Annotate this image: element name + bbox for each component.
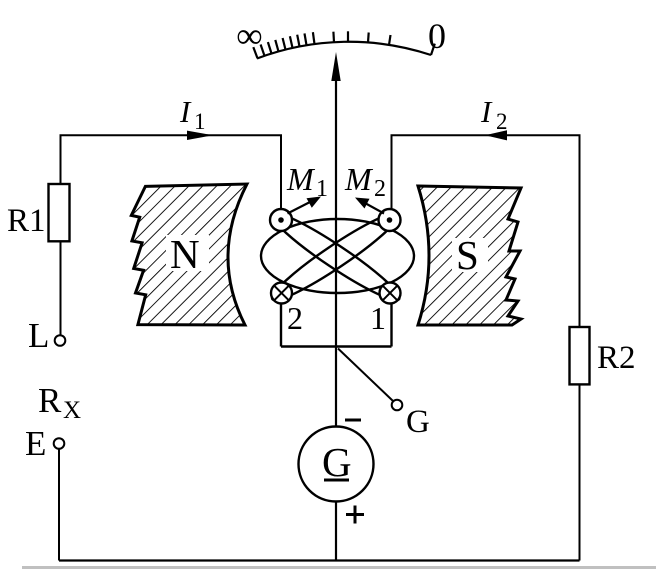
svg-text:G: G [322, 439, 352, 485]
svg-text:I: I [179, 94, 192, 129]
svg-text:E: E [25, 424, 46, 463]
svg-text:1: 1 [316, 176, 328, 202]
svg-text:R2: R2 [597, 340, 636, 376]
svg-text:M: M [344, 161, 374, 197]
svg-text:1: 1 [370, 300, 386, 336]
svg-text:M: M [286, 161, 316, 197]
svg-text:2: 2 [496, 109, 508, 134]
svg-text:2: 2 [374, 176, 386, 202]
svg-text:N: N [170, 231, 200, 277]
svg-text:2: 2 [287, 300, 303, 336]
svg-text:0: 0 [428, 16, 446, 56]
svg-text:∞: ∞ [237, 16, 263, 56]
svg-text:X: X [63, 397, 81, 424]
svg-text:G: G [406, 404, 430, 440]
svg-text:I: I [480, 94, 493, 129]
svg-text:1: 1 [194, 109, 206, 134]
svg-text:S: S [456, 232, 479, 278]
svg-text:L: L [28, 316, 49, 355]
svg-text:R1: R1 [7, 203, 46, 239]
svg-text:R: R [38, 381, 62, 420]
